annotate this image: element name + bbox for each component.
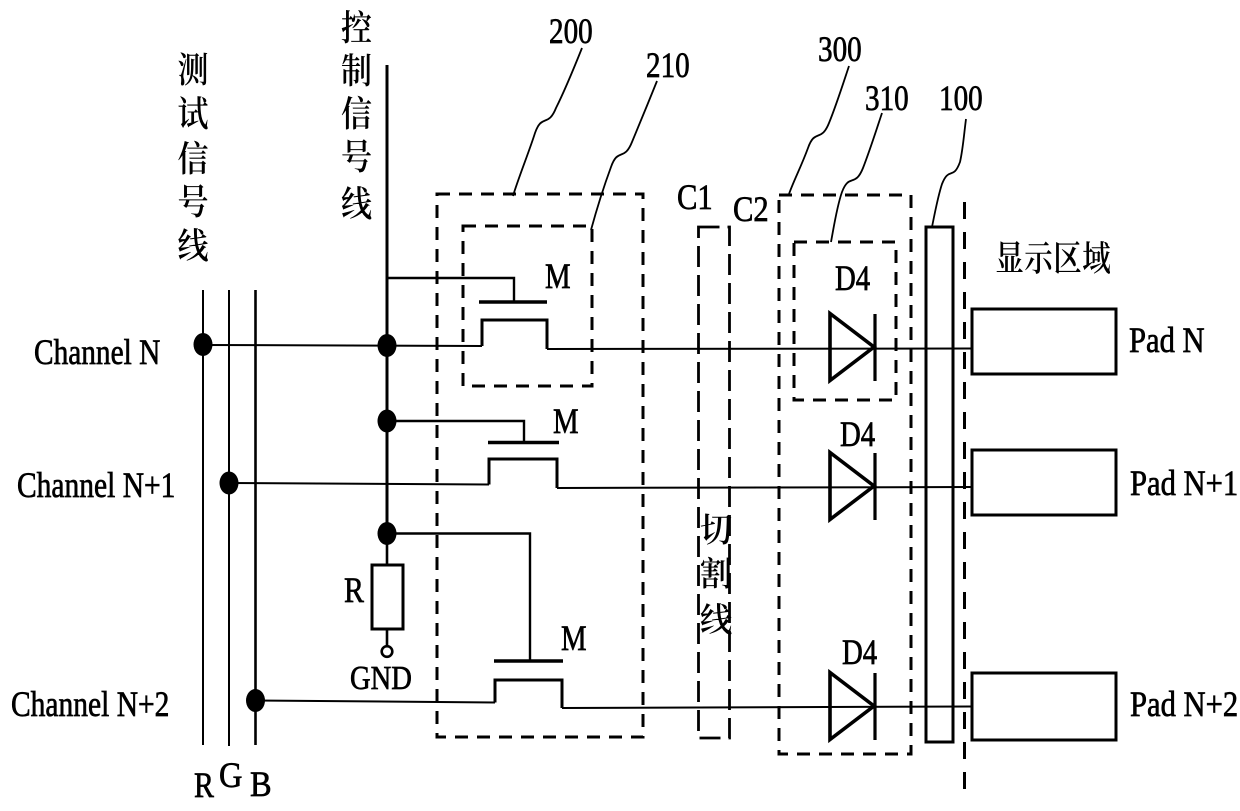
node Channel N at control line bbox=[378, 334, 397, 357]
transistor M2 gate bar bbox=[488, 441, 559, 445]
wire Channel N+1 right bbox=[557, 487, 972, 488]
ground GND terminal bbox=[382, 646, 393, 657]
svg-text:Channel N+1: Channel N+1 bbox=[17, 466, 175, 505]
svg-text:D4: D4 bbox=[842, 633, 877, 673]
wire resistor to GND bbox=[386, 629, 389, 646]
dashed box 210 (switch) bbox=[463, 226, 592, 386]
net label 控制信号线 (control signal line) bbox=[342, 10, 372, 220]
transistor M3 gate wire bbox=[387, 534, 530, 662]
svg-text:C2: C2 bbox=[733, 190, 769, 230]
net label 测试信号线 (test signal lines) bbox=[178, 52, 208, 261]
net label 切割线 (cutting line) bbox=[701, 514, 732, 635]
transistor M1 gate wire bbox=[387, 278, 514, 302]
transistor M1 gate bar bbox=[479, 300, 547, 304]
svg-text:R: R bbox=[194, 767, 215, 806]
svg-text:Pad N: Pad N bbox=[1129, 321, 1205, 361]
wire Channel N+1 left bbox=[229, 483, 489, 485]
svg-text:G: G bbox=[219, 755, 242, 795]
leader 100 bbox=[932, 119, 966, 227]
svg-text:300: 300 bbox=[818, 30, 862, 70]
leader 300 bbox=[789, 66, 849, 194]
svg-text:R: R bbox=[344, 572, 365, 611]
wire Channel N+2 right bbox=[562, 707, 972, 709]
svg-text:310: 310 bbox=[865, 79, 909, 119]
wire R test line bbox=[202, 290, 204, 745]
svg-text:D4: D4 bbox=[835, 259, 870, 299]
wire G test line bbox=[228, 290, 230, 746]
wire control to resistor bbox=[386, 534, 389, 565]
label 显示区域 (display area) bbox=[997, 241, 1110, 274]
svg-text:M: M bbox=[561, 619, 587, 659]
diode D4 (row N+2) bbox=[830, 673, 875, 741]
leader 310 bbox=[831, 113, 882, 242]
svg-text:100: 100 bbox=[939, 79, 983, 119]
pad N+2 box bbox=[972, 673, 1116, 740]
dashed box 310 (ESD diode) bbox=[794, 242, 896, 400]
transistor M2 channel bbox=[489, 459, 557, 488]
node Channel N+2 at B line bbox=[246, 689, 265, 712]
svg-text:Pad N+1: Pad N+1 bbox=[1130, 464, 1238, 504]
svg-text:Channel N: Channel N bbox=[34, 333, 160, 372]
node Channel N+1 at G line bbox=[220, 472, 239, 495]
transistor M3 gate bar bbox=[494, 659, 563, 663]
leader 200 bbox=[513, 48, 582, 196]
wire Channel N+2 left bbox=[256, 701, 496, 703]
svg-text:200: 200 bbox=[549, 12, 593, 52]
node Channel N at R line bbox=[194, 333, 213, 356]
node M2 gate tap bbox=[378, 410, 397, 433]
wire control signal line bbox=[386, 65, 389, 534]
svg-text:M: M bbox=[553, 402, 579, 442]
transistor M2 gate wire bbox=[387, 421, 524, 442]
cut line C1-C2 dashed region bbox=[699, 227, 730, 738]
node resistor / M3 gate tap bbox=[378, 522, 397, 545]
display area boundary bbox=[963, 202, 966, 800]
svg-text:GND: GND bbox=[350, 659, 412, 697]
pad N+1 box bbox=[972, 450, 1116, 515]
component 100 (panel seal strip) bbox=[926, 227, 953, 742]
svg-text:210: 210 bbox=[646, 46, 690, 86]
resistor R bbox=[372, 565, 403, 629]
svg-text:Pad N+2: Pad N+2 bbox=[1130, 685, 1238, 725]
transistor M3 channel bbox=[495, 680, 562, 708]
dashed box 300 (ESD unit) bbox=[779, 195, 911, 754]
svg-text:M: M bbox=[545, 257, 571, 297]
diode D4 (row N+1) bbox=[830, 453, 875, 521]
svg-text:C1: C1 bbox=[677, 178, 713, 218]
svg-text:B: B bbox=[250, 764, 272, 804]
dashed box 200 (switch unit) bbox=[437, 194, 643, 737]
svg-text:Channel N+2: Channel N+2 bbox=[11, 685, 169, 724]
diode D4 (row N) bbox=[830, 314, 875, 382]
svg-text:D4: D4 bbox=[840, 415, 875, 455]
wire Channel N left bbox=[203, 345, 482, 346]
pad N box bbox=[972, 309, 1116, 374]
leader 210 bbox=[591, 81, 657, 230]
wire Channel N right bbox=[547, 348, 972, 351]
transistor M1 channel bbox=[482, 320, 547, 349]
wire B test line bbox=[254, 290, 257, 745]
